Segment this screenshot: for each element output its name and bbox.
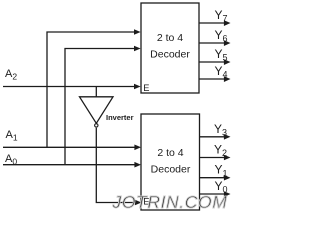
inverter U3 [80, 97, 114, 127]
svg-text:Inverter: Inverter [106, 113, 134, 122]
watermark JOTRIN.COM [112, 192, 228, 212]
wire A0 input line [3, 162, 141, 168]
svg-text:2 to 4: 2 to 4 [157, 147, 183, 159]
wire output Y5 [199, 59, 231, 65]
wire output Y0 [200, 191, 231, 197]
svg-text:Y1: Y1 [215, 163, 228, 179]
wire A2 input line [3, 84, 141, 90]
wire inverter input stub [95, 87, 97, 97]
svg-text:Y2: Y2 [214, 143, 227, 159]
wire A1 input line [3, 145, 141, 151]
wire output Y4 [199, 76, 231, 82]
svg-text:Decoder: Decoder [150, 49, 190, 61]
wire output Y1 [200, 175, 231, 181]
svg-text:Y5: Y5 [215, 47, 228, 63]
decoder U1 (2 to 4, top) [141, 3, 199, 93]
svg-text:2 to 4: 2 to 4 [157, 32, 183, 44]
svg-text:E: E [143, 83, 149, 93]
wire output Y3 [200, 134, 231, 140]
svg-text:A2: A2 [5, 68, 17, 82]
wire A1 branch to top decoder input 1 [47, 29, 141, 147]
svg-text:A0: A0 [5, 153, 17, 167]
wire output Y2 [200, 155, 231, 161]
wire A0 branch to top decoder input 0 [65, 46, 141, 165]
svg-text:Y4: Y4 [215, 64, 228, 80]
wire output Y7 [199, 20, 231, 26]
svg-text:A1: A1 [6, 129, 18, 143]
decoder U2 (2 to 4, bottom) [141, 114, 200, 210]
svg-text:Y6: Y6 [215, 28, 228, 44]
svg-text:Decoder: Decoder [151, 164, 191, 176]
svg-text:Y3: Y3 [214, 122, 227, 138]
svg-text:Y7: Y7 [215, 8, 228, 24]
svg-text:JOTRIN.COM: JOTRIN.COM [112, 192, 228, 212]
wire output Y6 [199, 40, 231, 46]
wire inverter output to bottom decoder E [96, 128, 141, 206]
